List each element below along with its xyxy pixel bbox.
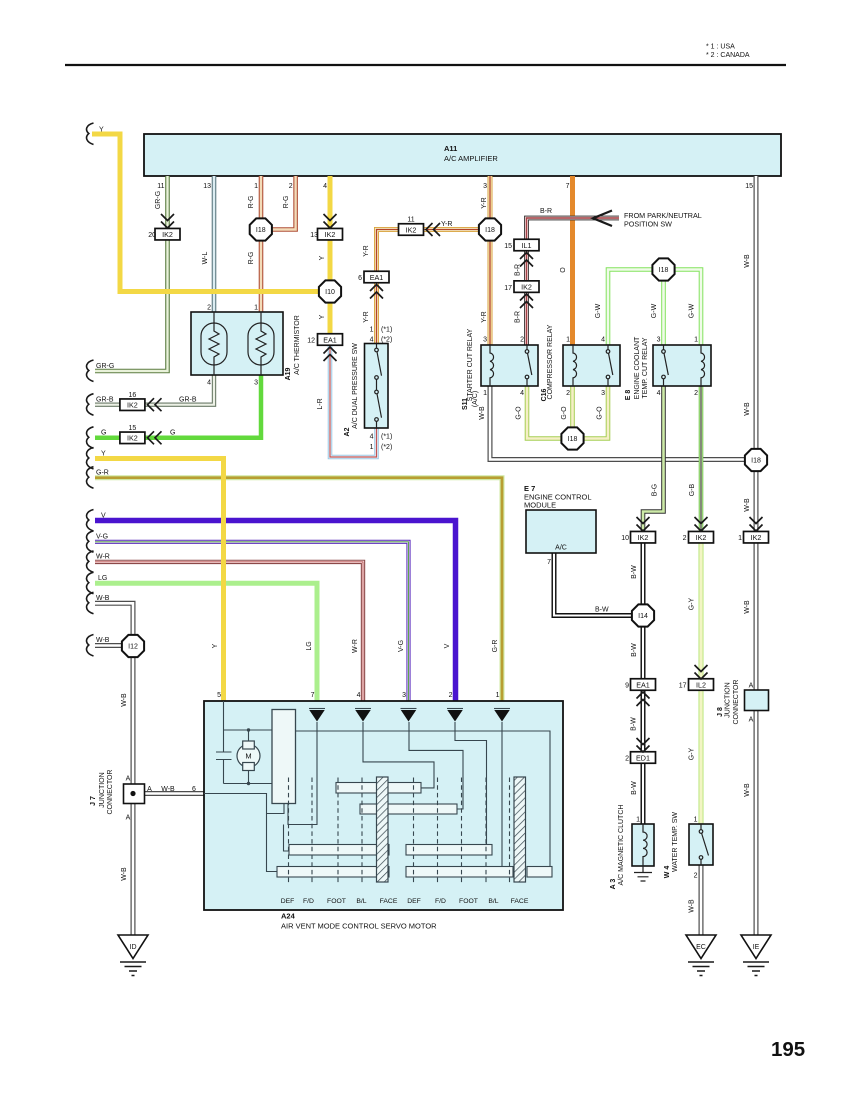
svg-text:2: 2 xyxy=(625,756,629,763)
svg-text:Y-R: Y-R xyxy=(363,245,370,256)
svg-text:B/L: B/L xyxy=(356,898,366,905)
junction connector J8 box xyxy=(745,690,769,711)
svg-text:G-O: G-O xyxy=(597,406,604,420)
svg-text:Y-R: Y-R xyxy=(441,221,452,228)
svg-text:FOOT: FOOT xyxy=(327,898,346,905)
chevrons above IK2-10 xyxy=(637,517,650,531)
svg-text:POSITION SW: POSITION SW xyxy=(624,220,672,229)
svg-text:R-G: R-G xyxy=(248,196,255,209)
svg-text:R-G: R-G xyxy=(283,196,290,209)
svg-text:16: 16 xyxy=(129,392,137,399)
svg-text:I14: I14 xyxy=(638,613,648,620)
svg-text:4: 4 xyxy=(370,337,374,344)
connector pin numbers xyxy=(148,232,742,763)
svg-text:W-B: W-B xyxy=(744,498,751,512)
svg-text:2: 2 xyxy=(520,337,524,344)
connector I14 octagon xyxy=(632,604,654,626)
svg-text:W-B: W-B xyxy=(744,783,751,797)
svg-text:V-G: V-G xyxy=(96,534,108,541)
svg-text:AIR VENT MODE CONTROL SERVO MO: AIR VENT MODE CONTROL SERVO MOTOR xyxy=(281,922,437,931)
connector box IK2-13 xyxy=(318,228,343,240)
chevrons below EA1-12 xyxy=(324,347,337,361)
svg-text:W-B: W-B xyxy=(121,693,128,707)
svg-text:W-B: W-B xyxy=(479,406,486,420)
svg-text:B-R: B-R xyxy=(515,311,522,323)
svg-text:V-G: V-G xyxy=(398,640,405,652)
component name labels vertical xyxy=(90,315,740,889)
wire B-W E7 pin7 to I14 xyxy=(554,553,632,616)
header rule xyxy=(65,64,786,66)
wire W-R left squiggle to A24 pin4 xyxy=(95,562,363,701)
A24 pin numbers xyxy=(217,692,500,699)
connector I18 mid octagon xyxy=(479,218,501,240)
wire W-B W4 pin2 to EC ground xyxy=(699,865,704,935)
svg-text:W-B: W-B xyxy=(744,402,751,416)
wire B-R from park/neutral sw to IL1 IK2-17 to S11 pin2 xyxy=(527,218,620,345)
A/C magnetic clutch A3 box xyxy=(632,824,654,866)
svg-text:EC: EC xyxy=(696,944,706,951)
svg-text:CONNECTOR: CONNECTOR xyxy=(107,770,114,815)
svg-text:1: 1 xyxy=(254,183,258,190)
svg-text:13: 13 xyxy=(310,232,318,239)
svg-text:W-B: W-B xyxy=(689,899,696,913)
svg-text:G-O: G-O xyxy=(561,406,568,420)
svg-text:4: 4 xyxy=(657,390,661,397)
svg-text:(*1): (*1) xyxy=(381,434,392,441)
J8 pin letters xyxy=(749,683,754,724)
wire GR-B A19 pin4 to IK2-16 to left xyxy=(95,375,214,405)
svg-text:17: 17 xyxy=(504,285,512,292)
svg-text:IK2: IK2 xyxy=(521,282,532,291)
svg-text:A: A xyxy=(147,786,152,793)
ground IE xyxy=(741,935,771,976)
A24 position labels xyxy=(281,898,529,905)
svg-text:A: A xyxy=(126,776,131,783)
svg-text:13: 13 xyxy=(203,183,211,190)
J7 pin letters and wire label xyxy=(126,776,196,822)
wire W-B I12 to J7 to ID ground xyxy=(131,657,136,935)
svg-text:R-G: R-G xyxy=(248,252,255,265)
E7 engine control module labels xyxy=(524,484,592,510)
junction dots on motor loop xyxy=(247,728,250,731)
svg-text:4: 4 xyxy=(357,692,361,699)
svg-text:JUNCTION: JUNCTION xyxy=(725,682,732,717)
wire B-G E8 pin4 to IK2-10 xyxy=(643,386,664,532)
svg-text:15: 15 xyxy=(745,183,753,190)
svg-text:5: 5 xyxy=(217,692,221,699)
squiggle W-B xyxy=(87,592,94,614)
svg-text:B/L: B/L xyxy=(488,898,498,905)
svg-text:I18: I18 xyxy=(256,227,266,234)
svg-text:B-W: B-W xyxy=(595,607,609,614)
svg-text:G-W: G-W xyxy=(651,303,658,318)
svg-text:6: 6 xyxy=(192,786,196,793)
svg-text:7: 7 xyxy=(566,183,570,190)
svg-text:10: 10 xyxy=(621,535,629,542)
svg-text:W-B: W-B xyxy=(161,786,175,793)
connector box EA1-9 xyxy=(631,679,656,691)
svg-text:ENGINE COOLANT: ENGINE COOLANT xyxy=(634,336,641,399)
svg-text:G-R: G-R xyxy=(492,640,499,653)
wire L-R EA1-12 to A2 lower pin xyxy=(330,345,377,457)
svg-text:V: V xyxy=(444,643,451,648)
diode at A24 pin4 xyxy=(355,709,371,722)
svg-text:MODULE: MODULE xyxy=(524,501,556,510)
svg-text:Y-R: Y-R xyxy=(481,311,488,322)
svg-text:WATER TEMP. SW: WATER TEMP. SW xyxy=(672,812,679,872)
wire W-B left squiggle to I12 xyxy=(95,603,133,635)
contact bar R5 xyxy=(406,845,492,856)
wire Y left squiggle to I10 xyxy=(92,134,320,292)
svg-text:(*1): (*1) xyxy=(381,327,392,334)
wire Y-R A2 pin1 up to IK2-11 to I18 xyxy=(377,230,481,344)
A/C amplifier A11 box xyxy=(144,134,781,176)
connector box IL2-17 xyxy=(689,679,714,691)
wire G-W I18 branch to E8 pin3 xyxy=(661,270,666,346)
connector box IK2-10 xyxy=(631,531,656,543)
relay pin numbers xyxy=(483,337,698,398)
svg-text:IK2: IK2 xyxy=(325,230,336,239)
svg-text:1: 1 xyxy=(496,692,500,699)
from park/neutral note xyxy=(624,211,702,229)
wire GR-G A11 pin11 to IK2-20 to left xyxy=(95,176,168,371)
svg-text:FOOT: FOOT xyxy=(459,898,478,905)
servo commutator bar xyxy=(272,710,296,804)
svg-text:Y: Y xyxy=(99,127,104,134)
svg-text:1: 1 xyxy=(483,390,487,397)
svg-text:A/C: A/C xyxy=(555,545,567,552)
connector I18 green loop octagon xyxy=(652,258,674,280)
motor M xyxy=(237,741,260,771)
ground EC xyxy=(686,935,716,976)
connector box EA1-6 xyxy=(364,271,389,283)
chevrons above ED1-2 xyxy=(637,738,650,752)
svg-text:IE: IE xyxy=(753,944,760,951)
svg-text:IK2: IK2 xyxy=(127,401,138,410)
svg-text:M: M xyxy=(245,752,251,761)
A/C dual pressure switch A2 box xyxy=(365,344,389,429)
svg-text:I18: I18 xyxy=(659,267,669,274)
svg-text:17: 17 xyxy=(679,683,687,690)
octagon node labels xyxy=(128,227,761,651)
connector I18 top left octagon xyxy=(250,218,272,240)
svg-text:B-W: B-W xyxy=(631,717,638,731)
A2 pin annotations xyxy=(370,327,393,452)
svg-text:IK2: IK2 xyxy=(162,230,173,239)
svg-text:3: 3 xyxy=(601,390,605,397)
svg-text:2: 2 xyxy=(207,305,211,312)
svg-text:I10: I10 xyxy=(325,289,335,296)
diode at A24 pin3 xyxy=(401,709,417,722)
svg-text:Y: Y xyxy=(101,451,106,458)
svg-text:I18: I18 xyxy=(751,458,761,465)
svg-text:Y-R: Y-R xyxy=(363,311,370,322)
svg-text:A: A xyxy=(749,683,754,690)
svg-text:B-W: B-W xyxy=(631,643,638,657)
svg-text:G-R: G-R xyxy=(96,470,109,477)
A24 title xyxy=(281,912,437,931)
svg-text:G-Y: G-Y xyxy=(689,747,696,760)
svg-text:A2: A2 xyxy=(344,427,351,436)
squiggle W-R xyxy=(87,551,94,573)
squiggle V xyxy=(87,510,94,532)
svg-text:G-W: G-W xyxy=(595,303,602,318)
wire B-W IK2-10 to I14 to EA1-9 xyxy=(641,543,646,680)
svg-text:J 8: J 8 xyxy=(717,707,724,717)
svg-text:4: 4 xyxy=(207,380,211,387)
wire G A19 pin3 to IK2-15 to left xyxy=(95,375,261,438)
svg-text:Y: Y xyxy=(319,255,326,260)
svg-text:W-B: W-B xyxy=(96,637,110,644)
wire V-G left squiggle to A24 pin3 xyxy=(95,542,409,701)
connector box EA1-12 xyxy=(318,334,343,346)
ground below A3 xyxy=(634,866,652,881)
starter cut relay S11 box xyxy=(481,345,538,386)
position dashed lines xyxy=(289,778,510,885)
chevrons right of IK2-15 xyxy=(148,431,162,444)
svg-text:1: 1 xyxy=(254,305,258,312)
contact bar R3 xyxy=(289,845,389,856)
svg-text:7: 7 xyxy=(547,559,551,566)
svg-text:195: 195 xyxy=(771,1038,805,1061)
wire R-G A11 pin2 to I18 xyxy=(273,176,296,230)
svg-text:A/C DUAL PRESSURE SW: A/C DUAL PRESSURE SW xyxy=(352,343,359,429)
A19 pin numbers xyxy=(207,305,258,387)
svg-text:IK2: IK2 xyxy=(406,225,417,234)
svg-text:Y-R: Y-R xyxy=(481,197,488,208)
junction connector J7 box xyxy=(124,784,145,804)
svg-text:4: 4 xyxy=(520,390,524,397)
svg-text:IK2: IK2 xyxy=(696,533,707,542)
svg-text:W-B: W-B xyxy=(744,254,751,268)
wire W-B A11 pin15 down right column to IE ground xyxy=(754,176,759,935)
svg-text:V: V xyxy=(101,513,106,520)
svg-text:G: G xyxy=(170,430,175,437)
wire G-B E8 pin2 to IK2-2 xyxy=(699,386,704,532)
chevrons below IL1-15 xyxy=(520,253,533,267)
svg-text:(*2): (*2) xyxy=(381,444,392,451)
svg-text:W 4: W 4 xyxy=(664,866,671,879)
arrow from park/neutral position sw xyxy=(593,211,612,227)
svg-text:A/C MAGNETIC CLUTCH: A/C MAGNETIC CLUTCH xyxy=(618,805,625,886)
connector box IK2-15 xyxy=(120,432,145,444)
connector I12 octagon xyxy=(122,635,144,657)
wire G-O C16 pin2 to I18 xyxy=(570,386,575,439)
wire G-O S11 pin4 to I18 to C16 pin3 xyxy=(527,386,608,439)
air vent mode control servo motor A24 box xyxy=(204,701,563,910)
wire R-G A11 pin1 to I18 to A19 pin1 xyxy=(259,176,264,312)
svg-text:F/D: F/D xyxy=(435,898,446,905)
connector I10 octagon xyxy=(319,280,341,302)
squiggle GR-B xyxy=(87,394,94,416)
contact bar R7 xyxy=(527,867,552,878)
chevrons above IK2-2 xyxy=(695,517,708,531)
squiggle G-R xyxy=(87,467,94,489)
svg-text:IK2: IK2 xyxy=(751,533,762,542)
chevrons above IK2-1 xyxy=(750,517,763,531)
connector box IK2-2 xyxy=(689,531,714,543)
wire O A11 pin7 to C16 pin1 xyxy=(570,176,575,345)
svg-text:DEF: DEF xyxy=(407,898,421,905)
svg-text:B-G: B-G xyxy=(652,484,659,496)
chevrons below EA1-6 xyxy=(370,285,383,299)
svg-text:(A/C): (A/C) xyxy=(472,391,479,407)
svg-text:11: 11 xyxy=(157,183,164,190)
A11 pin numbers xyxy=(157,183,753,190)
wiper bar left hatched xyxy=(377,777,389,882)
svg-text:1: 1 xyxy=(566,337,570,344)
svg-text:* 1 : USA: * 1 : USA xyxy=(706,44,735,51)
A24 internal wiring xyxy=(204,701,550,872)
svg-text:GR-B: GR-B xyxy=(179,397,197,404)
chevrons below EA1-9 xyxy=(637,692,650,706)
svg-text:G-O: G-O xyxy=(516,406,523,420)
svg-text:3: 3 xyxy=(483,337,487,344)
svg-text:1: 1 xyxy=(694,817,698,824)
svg-text:4: 4 xyxy=(323,183,327,190)
svg-text:DEF: DEF xyxy=(281,898,295,905)
svg-text:FACE: FACE xyxy=(511,898,529,905)
svg-text:(*2): (*2) xyxy=(381,337,392,344)
contact bar R1 xyxy=(336,783,421,794)
engine control module E7 A/C box xyxy=(526,510,596,553)
svg-text:G-W: G-W xyxy=(689,303,696,318)
svg-text:15: 15 xyxy=(129,425,137,432)
svg-text:EA1: EA1 xyxy=(370,273,384,282)
squiggle G xyxy=(87,427,94,449)
squiggle LG xyxy=(87,572,94,594)
svg-text:20: 20 xyxy=(148,232,156,239)
svg-text:GR-B: GR-B xyxy=(96,397,114,404)
svg-text:B-W: B-W xyxy=(631,781,638,795)
svg-text:W-L: W-L xyxy=(202,252,209,265)
svg-text:LG: LG xyxy=(98,575,107,582)
squiggle W-B lower xyxy=(87,635,94,657)
svg-text:EA1: EA1 xyxy=(636,680,650,689)
svg-text:3: 3 xyxy=(402,692,406,699)
svg-text:CONNECTOR: CONNECTOR xyxy=(733,680,740,725)
svg-text:IL2: IL2 xyxy=(696,680,706,689)
squiggle Y xyxy=(87,448,94,470)
wire W-L A11 pin13 to A19 pin2 xyxy=(212,176,217,312)
svg-text:* 2 : CANADA: * 2 : CANADA xyxy=(706,52,750,59)
wire V left squiggle to A24 pin2 xyxy=(95,521,456,702)
ground ID xyxy=(118,935,148,976)
diode at A24 pin2 xyxy=(447,709,463,722)
svg-text:4: 4 xyxy=(601,337,605,344)
connector box labels xyxy=(127,225,761,762)
svg-text:A/C AMPLIFIER: A/C AMPLIFIER xyxy=(444,154,498,163)
svg-text:W-B: W-B xyxy=(96,595,110,602)
wire G-R left squiggle to A24 pin1 xyxy=(95,478,502,701)
svg-text:E 8: E 8 xyxy=(625,390,632,401)
engine coolant temp cut relay E8 box xyxy=(653,345,711,386)
svg-text:I18: I18 xyxy=(485,227,495,234)
svg-text:B-R: B-R xyxy=(515,264,522,276)
wire B-W EA1-9 to ED1-2 xyxy=(641,690,646,752)
thermistor element left xyxy=(201,312,227,375)
svg-text:ID: ID xyxy=(130,944,137,951)
svg-text:I18: I18 xyxy=(568,436,578,443)
svg-text:G: G xyxy=(101,430,106,437)
connector box IK2-1 xyxy=(744,531,769,543)
contact bar R2 xyxy=(360,804,457,814)
svg-text:J 7: J 7 xyxy=(90,796,97,806)
svg-text:I12: I12 xyxy=(128,644,138,651)
wire Y-R A11 pin3 to I18 to S11 pin3 xyxy=(488,176,493,345)
svg-text:B-W: B-W xyxy=(631,565,638,579)
svg-text:2: 2 xyxy=(683,535,687,542)
wire W-B S11 pin1 to I18 right xyxy=(490,386,745,460)
A/C thermistor A19 box xyxy=(191,312,283,375)
left edge wire labels xyxy=(96,127,114,645)
thermistor element right xyxy=(248,312,274,375)
svg-text:15: 15 xyxy=(504,243,512,250)
connector box ED1-2 xyxy=(631,752,656,764)
chevrons above IL2-17 xyxy=(695,665,708,679)
connector box IK2-17 xyxy=(514,281,539,293)
svg-text:4: 4 xyxy=(370,434,374,441)
svg-text:ED1: ED1 xyxy=(636,753,650,762)
svg-text:1: 1 xyxy=(370,444,374,451)
wire W-B J7 to A24 left edge xyxy=(145,791,204,796)
svg-text:3: 3 xyxy=(254,380,258,387)
svg-text:3: 3 xyxy=(657,337,661,344)
squiggle V-G xyxy=(87,531,94,553)
svg-text:2: 2 xyxy=(449,692,453,699)
svg-text:W-R: W-R xyxy=(96,554,110,561)
svg-text:JUNCTION: JUNCTION xyxy=(99,772,106,807)
squiggle Y top left xyxy=(87,123,94,145)
svg-text:1: 1 xyxy=(636,817,640,824)
chevrons above IK2-13 xyxy=(324,214,337,228)
svg-text:A24: A24 xyxy=(281,912,296,921)
svg-text:A11: A11 xyxy=(444,144,457,153)
svg-text:Y: Y xyxy=(212,643,219,648)
svg-text:W-B: W-B xyxy=(121,867,128,881)
svg-text:EA1: EA1 xyxy=(323,335,337,344)
wiper bar right hatched xyxy=(514,777,526,882)
connector I18 G-O octagon xyxy=(561,427,583,449)
diode at A24 pin1 xyxy=(494,709,510,722)
svg-text:L-R: L-R xyxy=(317,398,324,409)
svg-text:1: 1 xyxy=(694,337,698,344)
chevrons above IK2-20 xyxy=(161,214,174,228)
squiggle GR-G xyxy=(87,360,94,382)
svg-text:11: 11 xyxy=(407,217,414,224)
svg-text:IL1: IL1 xyxy=(522,241,532,250)
chevrons below IK2-17 xyxy=(520,294,533,308)
svg-text:STARTER CUT RELAY: STARTER CUT RELAY xyxy=(467,328,474,401)
connector box IK2-20 xyxy=(155,228,180,240)
svg-text:1: 1 xyxy=(370,327,374,334)
svg-text:2: 2 xyxy=(694,390,698,397)
water temp switch W4 box xyxy=(689,824,713,865)
wire G-W loop C16 pin4 to I18 to E8 pin1 xyxy=(608,270,701,346)
svg-text:A19: A19 xyxy=(285,367,292,380)
connector box IK2-16 xyxy=(120,399,145,411)
svg-text:A: A xyxy=(126,815,131,822)
svg-text:3: 3 xyxy=(483,183,487,190)
wire G-Y IK2-2 to IL2-17 to W4 pin1 xyxy=(699,543,704,825)
diode at A24 pin7 xyxy=(309,709,325,722)
wire W-B second squiggle to I12 left xyxy=(95,643,122,648)
svg-text:Y: Y xyxy=(319,314,326,319)
mid horizontal wire labels xyxy=(170,208,609,614)
svg-text:COMPRESSOR RELAY: COMPRESSOR RELAY xyxy=(547,324,554,399)
vertical wire labels xyxy=(121,191,751,913)
svg-text:2: 2 xyxy=(694,873,698,880)
